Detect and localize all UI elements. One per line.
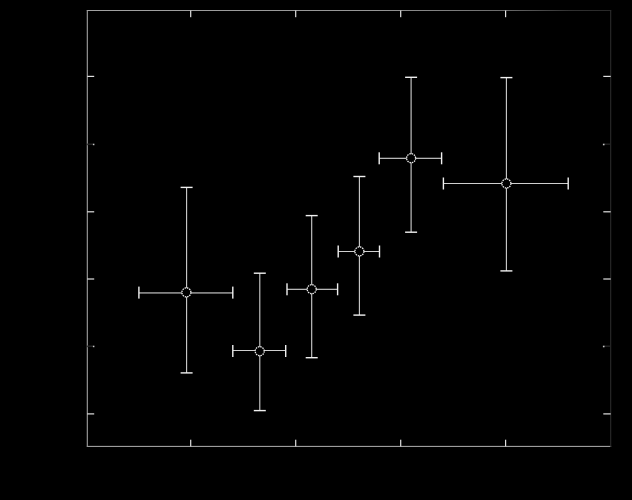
axis frame: left edge bbox=[86, 10, 88, 447]
data point 3 error bars bbox=[287, 216, 338, 358]
data point 5 error bars bbox=[379, 77, 441, 232]
data point 4 error bars bbox=[338, 177, 379, 316]
data point 6 error bars bbox=[443, 78, 568, 271]
data point 1 error bars bbox=[139, 187, 233, 373]
axis frame: bottom edge bbox=[87, 445, 611, 447]
faint dark ticks, left axis bbox=[88, 144, 93, 346]
data point 1 marker bbox=[182, 288, 191, 297]
data point 6 caps bbox=[443, 78, 568, 271]
data point 4 marker bbox=[355, 247, 364, 256]
faint dark ticks, right axis bbox=[604, 144, 610, 346]
data point 3 marker bbox=[307, 285, 316, 294]
y-axis major ticks, right bbox=[603, 76, 610, 414]
data point 5 marker bbox=[407, 154, 416, 163]
y-axis major ticks, left bbox=[87, 76, 94, 414]
data point 2 caps bbox=[233, 273, 286, 410]
data point 6 marker bbox=[502, 179, 511, 188]
data point 1 caps bbox=[139, 187, 233, 373]
data point 5 caps bbox=[379, 77, 441, 232]
axis frame: top edge bbox=[87, 10, 611, 12]
bright tips of dark ticks bbox=[93, 144, 605, 348]
data point 2 error bars bbox=[233, 273, 286, 410]
axis frame: right edge bbox=[610, 10, 612, 447]
data point 2 marker bbox=[255, 347, 264, 356]
data point 3 caps bbox=[287, 216, 338, 358]
x-axis major ticks, top bbox=[191, 11, 506, 18]
x-axis major ticks, bottom bbox=[191, 440, 506, 447]
data point 4 caps bbox=[338, 177, 379, 316]
dark notches on left axis at faint tick rows bbox=[87, 144, 88, 348]
